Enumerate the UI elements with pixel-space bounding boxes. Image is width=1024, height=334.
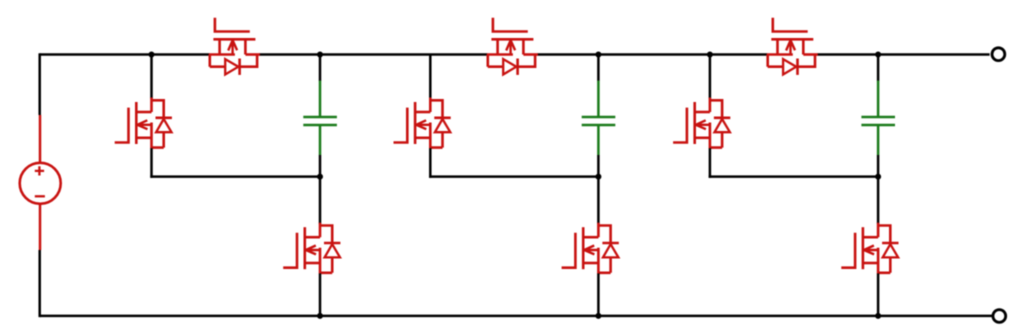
wire M7 source down	[709, 148, 712, 178]
capacitor C1	[303, 81, 337, 156]
transistor M1 (high-side vertical nmos, cell 1)	[115, 98, 172, 149]
transistor M8 (top rail horizontal nmos, cell 3)	[767, 18, 818, 75]
capacitor C2	[582, 81, 616, 156]
wire cap C1 top lead black	[319, 55, 322, 82]
junction dot top rail cap2	[595, 52, 601, 58]
wire cap C1 bottom to middle node	[319, 155, 322, 224]
terminal top right	[992, 48, 1005, 61]
wire top rail segment 4	[817, 53, 989, 56]
capacitor C3	[861, 81, 895, 156]
junction dot middle cell2	[595, 174, 601, 180]
junction dot middle cell3	[875, 174, 881, 180]
junction dot middle cell1	[317, 174, 323, 180]
wire middle cell 3	[709, 175, 878, 178]
transistor M9 (low-side vertical nmos, cell 3)	[841, 223, 898, 274]
transistor M3 (low-side vertical nmos, cell 1)	[283, 223, 340, 274]
wire top rail segment 2	[259, 53, 487, 56]
wire M3 source to bottom rail	[319, 273, 322, 316]
junction dot top rail cell3 nmos	[707, 52, 713, 58]
transistor M4 (high-side vertical nmos, cell 2)	[394, 98, 451, 149]
junction dot top rail cell1 nmos	[149, 52, 155, 58]
wire M4 drain	[429, 55, 432, 99]
wire cap C2 bottom to middle node	[597, 155, 600, 224]
wire top rail segment 1	[40, 53, 210, 56]
wire M7 drain	[709, 55, 712, 99]
wire left vertical lower black	[38, 250, 41, 317]
transistor M6 (low-side vertical nmos, cell 2)	[562, 223, 619, 274]
transistor M2 (top rail horizontal nmos, cell 1)	[209, 18, 260, 75]
wire M9 source to bottom rail	[877, 273, 880, 316]
wire middle cell 2	[429, 175, 598, 178]
voltage source V1	[20, 115, 61, 250]
junction dot top rail cap1	[317, 52, 323, 58]
wire M1 drain	[150, 55, 153, 99]
wire cap C2 top lead black	[597, 55, 600, 82]
wire cap C3 bottom to middle node	[877, 155, 880, 224]
wire bottom rail	[40, 315, 993, 318]
wire top rail segment 3	[537, 53, 767, 56]
junction dot bottom rail cap2	[595, 313, 601, 319]
transistor M7 (high-side vertical nmos, cell 3)	[673, 98, 730, 149]
wire cap C3 top lead black	[877, 55, 880, 82]
junction dot bottom rail cap3	[875, 313, 881, 319]
wire middle cell 1	[150, 175, 320, 178]
wire M1 source down	[150, 148, 153, 178]
terminal bottom right	[993, 310, 1006, 323]
junction dot bottom rail cap1	[317, 313, 323, 319]
wire left vertical upper black	[38, 53, 41, 115]
junction dot top rail cap3	[875, 52, 881, 58]
wire M6 source to bottom rail	[597, 273, 600, 316]
wire M4 source down	[429, 148, 432, 178]
transistor M5 (top rail horizontal nmos, cell 2)	[487, 18, 538, 75]
